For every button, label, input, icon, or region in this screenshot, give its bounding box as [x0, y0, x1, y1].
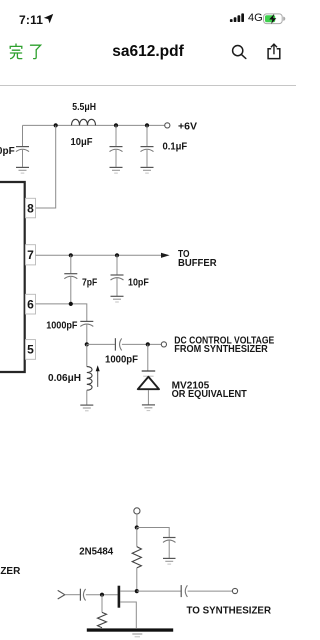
capacitor 100pF (left, partly cropped)	[16, 147, 29, 167]
pin 7	[25, 245, 35, 265]
pin 8	[25, 198, 35, 218]
node: junction dot pin7 row / 10pF	[115, 253, 119, 257]
wire: DC control row right segment	[122, 343, 161, 345]
node: junction dot rail / 0.1uF	[145, 123, 149, 127]
status bar 4G	[248, 12, 263, 24]
node: junction dot drain/output	[135, 589, 139, 593]
ground (below bus bar)	[132, 634, 142, 637]
wire: +6V top supply rail	[23, 124, 165, 126]
svg-text:100pF: 100pF	[0, 146, 15, 157]
wire: varactor branch drop	[147, 344, 149, 370]
svg-text:FROM SYNTHESIZER: FROM SYNTHESIZER	[174, 344, 268, 355]
status bar signal bars	[229, 12, 246, 23]
node: junction dot gate	[100, 593, 104, 597]
node: junction dot supply	[135, 525, 139, 529]
capacitor 7pF (pin7 row to pin6 row)	[64, 255, 77, 304]
wire: input to coupling cap	[65, 594, 80, 596]
nav button 完了 (Done, green, drawn as vector strokes)	[9, 43, 43, 60]
inductor L1 5.5uH on rail	[72, 119, 96, 125]
inductor L2 0.06uH (adjustable)	[87, 365, 100, 405]
capacitor (supply bypass)	[163, 538, 176, 559]
svg-text:6: 6	[27, 297, 34, 311]
pin 5	[25, 340, 35, 360]
node: junction dot rail / 10uF	[114, 123, 118, 127]
svg-text:BUFFER: BUFFER	[178, 258, 217, 269]
wire: supply drop to node	[136, 514, 138, 527]
terminal DC control voltage	[161, 342, 166, 347]
resistor (gate bias)	[98, 595, 107, 628]
ground (bypass cap)	[163, 558, 176, 564]
svg-text:10pF: 10pF	[128, 277, 149, 288]
wire: inductor branch drop	[86, 344, 88, 366]
svg-text:+6V: +6V	[178, 121, 197, 132]
svg-text:2N5484: 2N5484	[79, 547, 113, 558]
node: junction dot pin7 row / 7pF	[69, 253, 73, 257]
nav title sa612.pdf	[0, 43, 296, 61]
ground (0.1uF)	[141, 167, 154, 173]
resistor (drain load)	[132, 528, 141, 590]
op-amp/mixer IC U1 (SA612, body cropped at left)	[0, 182, 25, 372]
svg-text:10μF: 10μF	[71, 137, 93, 148]
nav share icon	[265, 42, 283, 61]
pin 6	[25, 294, 35, 314]
capacitor (output coupling)	[181, 585, 187, 597]
svg-text:8: 8	[27, 201, 34, 215]
node: junction dot DC row / inductor branch	[85, 342, 89, 346]
wire: over to bypass cap	[137, 528, 169, 538]
input terminal chevron	[58, 590, 65, 599]
wire: pin 6 row to corner	[36, 304, 87, 321]
capacitor 10pF (pin7 row to ground)	[111, 255, 124, 296]
wire: drain to output cap	[137, 590, 181, 592]
capacitor C2 10uF	[110, 125, 123, 166]
arrow to buffer	[161, 253, 170, 258]
capacitor 1000pF (series, DC control)	[115, 338, 121, 350]
terminal supply (JFET buffer, top)	[134, 508, 140, 514]
terminal to synthesizer	[232, 588, 237, 593]
svg-text:1000pF: 1000pF	[105, 354, 138, 365]
nav search icon	[230, 42, 248, 60]
svg-text:OR EQUIVALENT: OR EQUIVALENT	[172, 389, 247, 400]
wire: cap to output terminal	[188, 590, 233, 592]
terminal +6V	[165, 123, 170, 128]
nav bar separator	[0, 85, 296, 86]
svg-text:5.5μH: 5.5μH	[72, 102, 96, 113]
wire: cap to gate node	[86, 594, 118, 596]
status bar time 7:11	[19, 13, 43, 27]
wire: DC control row left segment	[87, 343, 115, 345]
ground (varactor)	[142, 405, 155, 411]
varactor diode D1 MV2105	[138, 371, 159, 405]
svg-text:7pF: 7pF	[82, 277, 97, 288]
svg-text:1000pF: 1000pF	[46, 321, 77, 332]
svg-text:7: 7	[27, 248, 34, 262]
svg-text:TO SYNTHESIZER: TO SYNTHESIZER	[187, 606, 272, 617]
完	[15, 44, 17, 46]
capacitor (input coupling)	[80, 589, 85, 601]
了	[31, 45, 41, 50]
ground (inductor)	[80, 405, 93, 411]
transistor Q1 2N5484 (JFET)	[119, 586, 136, 628]
ground (100pF)	[16, 167, 29, 173]
svg-text:SYNTHESIZER: SYNTHESIZER	[0, 566, 21, 577]
wire: pin 7 output row	[36, 254, 162, 256]
node: junction dot DC row / varactor	[146, 342, 150, 346]
ground bus bar	[87, 628, 173, 631]
wire: from rail down and left into pin 8	[36, 125, 56, 208]
wire: rail left corner down to 100pF cap	[22, 125, 24, 146]
status bar location arrow	[43, 13, 55, 24]
ground (10uF)	[110, 167, 123, 173]
ground (10pF)	[111, 296, 124, 302]
svg-text:5: 5	[27, 343, 34, 357]
node: junction dot rail / pin8 drop	[54, 123, 58, 127]
status bar battery (charging)	[263, 13, 286, 25]
svg-text:0.1μF: 0.1μF	[163, 142, 188, 153]
svg-text:0.06μH: 0.06μH	[48, 373, 81, 384]
node: junction dot pin6 row / 7pF bottom	[69, 302, 73, 306]
capacitor C3 0.1uF	[141, 125, 154, 166]
capacitor 1000pF (pin6 branch)	[80, 321, 93, 342]
